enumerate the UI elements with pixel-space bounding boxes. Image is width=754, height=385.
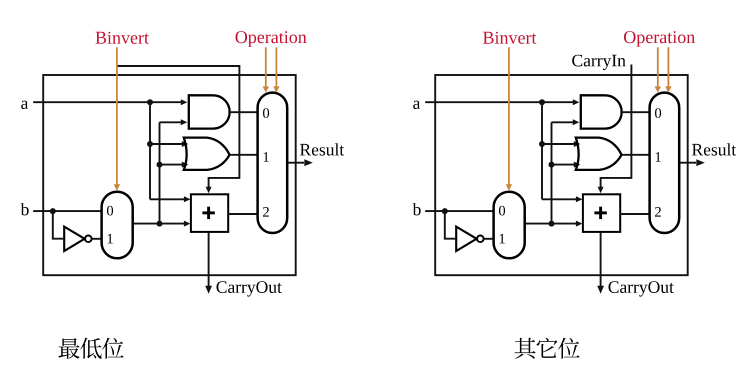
node a label (right) bbox=[413, 101, 420, 109]
result mux pin label 1 (left) bbox=[264, 152, 269, 162]
control wire: Binvert into b-mux select (right) bbox=[508, 47, 510, 185]
result mux pin label 0 (left) bbox=[263, 108, 269, 118]
outer box (left ALU cell) bbox=[43, 75, 296, 275]
wire: AND output to result mux input 0 (right) bbox=[622, 111, 650, 113]
wire: adder CarryOut down (right) bbox=[600, 232, 602, 289]
junction: b-mux output branch (left) bbox=[157, 221, 163, 227]
node CarryOut label (left) bbox=[217, 281, 282, 296]
inverter (NOT gate) on b (left) bbox=[64, 227, 84, 251]
wire: to AND gate bottom input (left) bbox=[160, 121, 183, 123]
wire: b-mux output to adder bottom input (left) bbox=[133, 223, 185, 225]
result mux (Operation select) (left) bbox=[258, 93, 288, 233]
control wire: Operation bit into result mux (left) bbox=[265, 47, 267, 87]
control wire: Operation bit 2 into result mux (right) bbox=[667, 47, 669, 87]
wire: b-mux output to adder bottom input (right) bbox=[525, 223, 577, 225]
wire: input b (right) bbox=[425, 210, 493, 212]
wire: adder CarryOut down (left) bbox=[208, 232, 210, 289]
wire: adder output to result mux input 2 (right) bbox=[620, 213, 649, 215]
2:1 mux for b (Binvert select) (left) bbox=[102, 192, 133, 259]
node b label (right) bbox=[413, 203, 421, 215]
OR gate (left) bbox=[184, 138, 230, 170]
wire: OR output to result mux input 1 (left) bbox=[230, 154, 258, 156]
wire: OR output to result mux input 1 (right) bbox=[622, 154, 650, 156]
result mux pin label 2 (right) bbox=[655, 207, 661, 217]
caption 其它位 (other bits) bbox=[515, 338, 580, 359]
node Result label (right) bbox=[692, 143, 736, 155]
wire: adder output to result mux input 2 (left) bbox=[228, 213, 257, 215]
wire: b down to inverter (right) bbox=[445, 211, 456, 239]
junction: a branch to OR (left) bbox=[147, 141, 153, 147]
Operation label (right) bbox=[624, 31, 695, 47]
b-mux pin label 0 (left) bbox=[107, 206, 113, 216]
result mux (Operation select) (right) bbox=[650, 93, 680, 233]
node Result label (left) bbox=[300, 143, 344, 155]
wire: a to adder top input (right) bbox=[542, 198, 577, 200]
wire: a branch vertical (right) bbox=[541, 102, 543, 199]
node CarryIn label (right) bbox=[572, 55, 626, 70]
caption 最低位 (least significant bit) bbox=[58, 338, 123, 359]
junction: a branch to OR (right) bbox=[539, 141, 545, 147]
junction: branch to OR bottom input (right) bbox=[549, 162, 555, 168]
adder plus sign (left) bbox=[202, 211, 214, 214]
node CarryOut label (right) bbox=[609, 281, 674, 296]
wire: input b (left) bbox=[33, 210, 101, 212]
junction: a to AND/branch (right) bbox=[539, 99, 545, 105]
wire: a to OR gate top input (left) bbox=[150, 143, 184, 145]
inverter bubble (right) bbox=[477, 236, 484, 243]
junction: a to AND/branch (left) bbox=[147, 99, 153, 105]
node b label (left) bbox=[21, 203, 29, 215]
wire: inverter output to b-mux input 1 (right) bbox=[484, 238, 494, 240]
AND gate (right) bbox=[581, 95, 622, 128]
wire: a to OR gate top input (right) bbox=[542, 143, 576, 145]
outer box (right ALU cell) bbox=[435, 75, 688, 275]
result mux pin label 0 (right) bbox=[655, 108, 661, 118]
inverter bubble (left) bbox=[85, 236, 92, 243]
Operation label (left) bbox=[236, 31, 307, 47]
wire: a branch vertical (left) bbox=[149, 102, 151, 199]
wire: input a (right) bbox=[425, 101, 575, 103]
adder box (left) bbox=[191, 194, 228, 232]
adder plus sign (right) bbox=[594, 211, 606, 214]
b-mux pin label 1 (left) bbox=[108, 234, 113, 244]
control wire: Operation bit 2 into result mux (left) bbox=[275, 47, 277, 87]
b-mux pin label 0 (right) bbox=[499, 206, 505, 216]
control wire: Operation bit into result mux (right) bbox=[657, 47, 659, 87]
inverter (NOT gate) on b (right) bbox=[456, 227, 476, 251]
result mux pin label 2 (left) bbox=[263, 207, 269, 217]
wire: inverter output to b-mux input 1 (left) bbox=[92, 238, 102, 240]
junction: b to inverter branch (right) bbox=[442, 208, 448, 214]
wire: Result output (left) bbox=[287, 162, 304, 164]
wire: CarryIn from top to adder (right) bbox=[601, 65, 632, 189]
wire: to AND gate bottom input (right) bbox=[552, 121, 575, 123]
wire: Binvert tap to adder CarryIn (left only) bbox=[117, 66, 239, 188]
wire: Result output (right) bbox=[679, 162, 696, 164]
wire: b-mux branch vertical (left) bbox=[159, 122, 161, 223]
wire: b down to inverter (left) bbox=[53, 211, 64, 239]
wire: input a (left) bbox=[33, 101, 183, 103]
2:1 mux for b (Binvert select) (right) bbox=[494, 192, 525, 259]
control wire: Binvert into b-mux select (left) bbox=[116, 47, 118, 185]
AND gate (left) bbox=[189, 95, 230, 128]
wire: to OR gate bottom input (left) bbox=[160, 164, 185, 166]
wire: a to adder top input (left) bbox=[150, 198, 185, 200]
Binvert label (left) bbox=[96, 32, 149, 44]
result mux pin label 1 (right) bbox=[656, 152, 661, 162]
junction: b to inverter branch (left) bbox=[50, 208, 56, 214]
node a label (left) bbox=[21, 101, 28, 109]
junction: branch to OR bottom input (left) bbox=[157, 162, 163, 168]
adder box (right) bbox=[583, 194, 620, 232]
wire: b-mux branch vertical (right) bbox=[551, 122, 553, 223]
junction: b-mux output branch (right) bbox=[549, 221, 555, 227]
Binvert label (right) bbox=[483, 32, 536, 44]
wire: AND output to result mux input 0 (left) bbox=[230, 111, 258, 113]
OR gate (right) bbox=[576, 138, 622, 170]
wire: to OR gate bottom input (right) bbox=[552, 164, 577, 166]
b-mux pin label 1 (right) bbox=[500, 234, 505, 244]
